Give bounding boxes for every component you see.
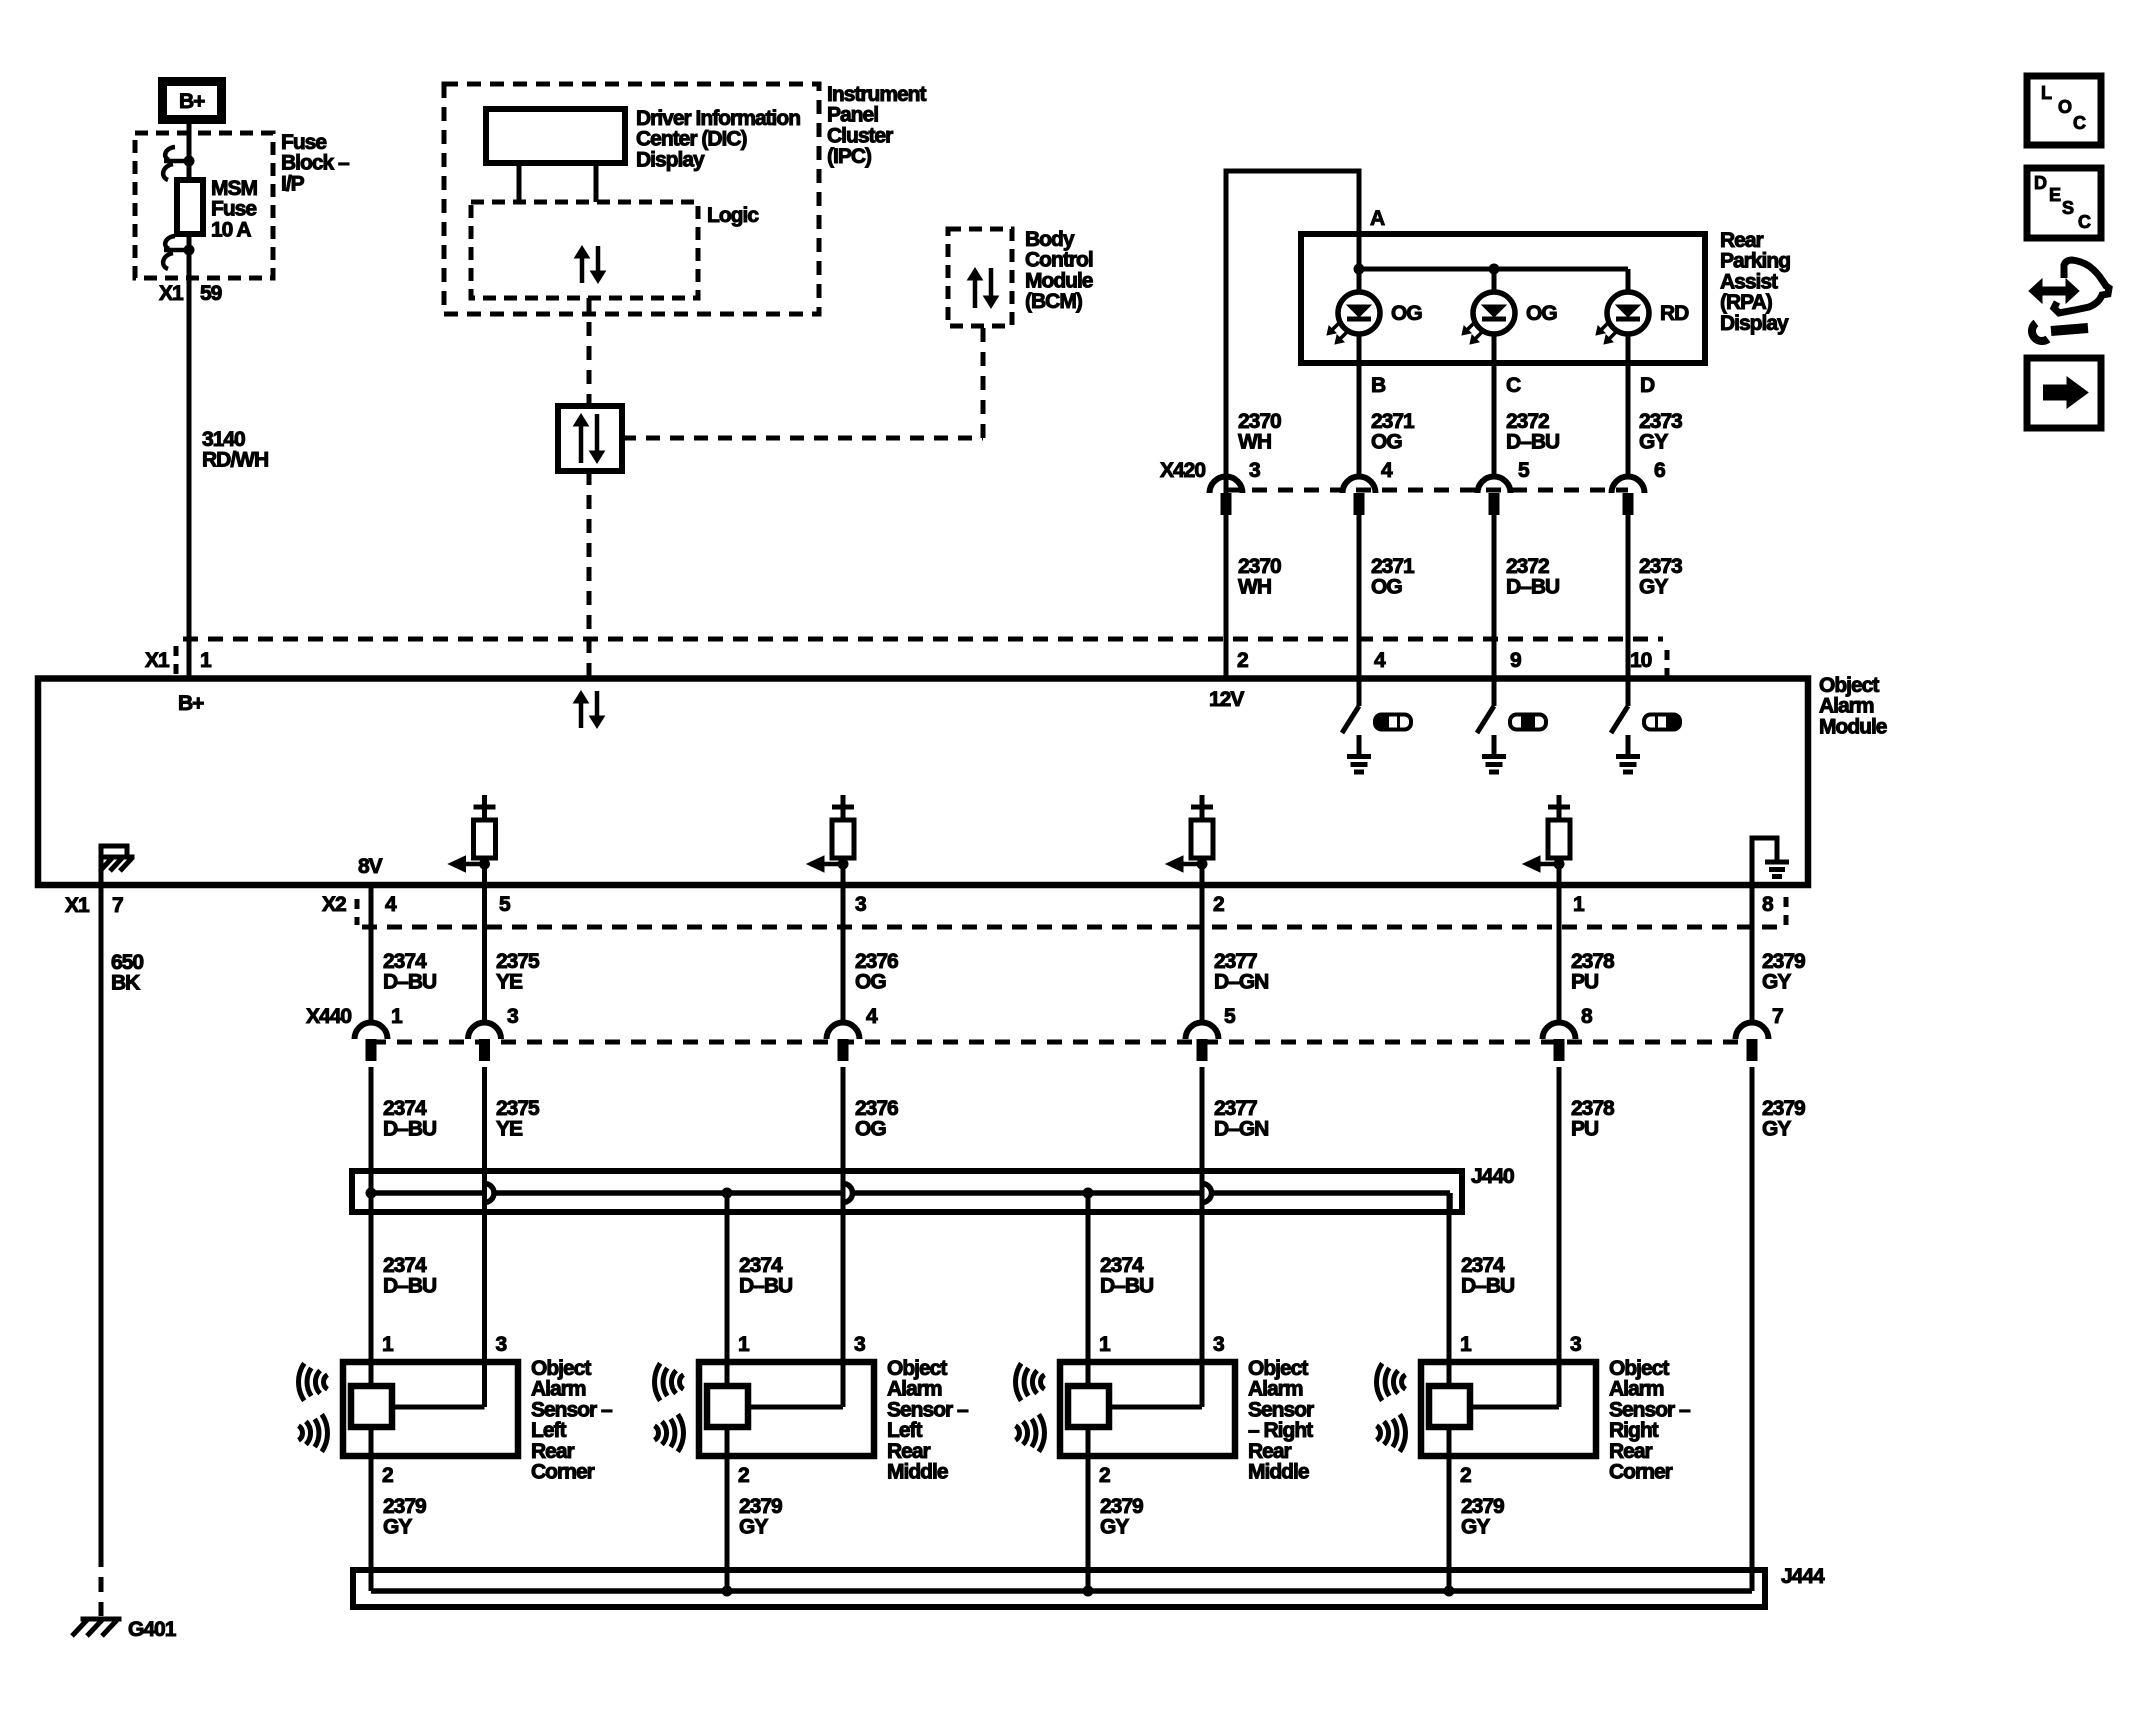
icon DESC box	[2027, 168, 2101, 238]
svg-text:Module: Module	[1819, 715, 1887, 738]
svg-text:GY: GY	[1100, 1516, 1129, 1539]
X440 pin 3 number	[507, 1005, 518, 1028]
svg-text:8: 8	[1762, 893, 1774, 916]
wire 2374 D-BU to J440	[369, 1067, 374, 1193]
sensor 3 label	[1248, 1357, 1314, 1484]
svg-text:650: 650	[111, 951, 143, 974]
svg-text:4: 4	[1381, 459, 1393, 482]
svg-text:2372: 2372	[1506, 410, 1549, 433]
svg-text:J440: J440	[1471, 1165, 1514, 1188]
svg-text:Cluster: Cluster	[827, 124, 893, 147]
wire B+ to fuse	[187, 161, 192, 180]
svg-text:2372: 2372	[1506, 555, 1549, 578]
sensor 2 pin 2 number	[738, 1464, 749, 1487]
X420 pin 6 terminal	[1612, 477, 1645, 516]
wire 2378 PU to sensor 4	[1557, 1067, 1562, 1386]
X420 pin 5 number	[1518, 459, 1530, 482]
svg-text:– Right: – Right	[1248, 1419, 1313, 1442]
J440 junction sensor 2	[722, 1188, 733, 1199]
sensor 2 internal link	[748, 1362, 843, 1407]
connector X2 label	[322, 893, 346, 916]
wire label 2379 GY lower	[1762, 1097, 1805, 1141]
svg-text:3: 3	[855, 893, 866, 916]
wire label 650 BK	[111, 951, 143, 995]
svg-text:2374: 2374	[1100, 1254, 1144, 1277]
svg-text:X1: X1	[65, 894, 90, 917]
svg-text:D: D	[2034, 173, 2047, 193]
sensor 1 pin 1 number	[382, 1333, 394, 1356]
wire label 2374 D-BU sensor 1	[383, 1254, 436, 1298]
splice J440 label	[1471, 1165, 1514, 1188]
wire label 2377 D–GN upper	[1214, 950, 1268, 994]
sensor 3 ultrasonic waves upper	[1015, 1363, 1044, 1400]
sensor 3 pin 2 number	[1099, 1464, 1110, 1487]
X440 pin 7 number	[1772, 1005, 1783, 1028]
svg-text:Module: Module	[1025, 269, 1093, 292]
wire 3140 RD/WH from B+ to fuse block	[187, 124, 192, 161]
svg-text:C: C	[1506, 374, 1521, 397]
wire 2374 D-BU drop to sensor 3	[1086, 1193, 1091, 1386]
module serial data arrows	[574, 691, 605, 728]
module pin B+ label	[178, 692, 204, 715]
svg-text:YE: YE	[496, 1118, 523, 1141]
svg-text:GY: GY	[1762, 971, 1791, 994]
svg-text:Body: Body	[1025, 228, 1075, 251]
indicator icon segment 1	[1375, 715, 1412, 730]
wire 2377 D-GN module to X440	[1200, 884, 1205, 1023]
X1 pin 1 number	[200, 649, 212, 672]
wire label 2372 D-BU upper	[1506, 410, 1559, 454]
pin D label	[1640, 374, 1655, 397]
LED3 cathode lead pin D	[1626, 334, 1631, 477]
svg-text:2370: 2370	[1238, 410, 1281, 433]
wire label 3140 RD/WH	[202, 428, 268, 472]
connector X420 label	[1160, 459, 1205, 482]
svg-text:B+: B+	[179, 90, 205, 113]
svg-text:2371: 2371	[1371, 555, 1415, 578]
svg-text:Right: Right	[1609, 1419, 1659, 1442]
svg-text:GY: GY	[383, 1516, 412, 1539]
wire 2379 GY sensor 3 to J444	[1086, 1427, 1091, 1591]
object alarm sensor 3 box	[1060, 1362, 1235, 1456]
RPA display label	[1720, 229, 1790, 335]
svg-text:MSM: MSM	[211, 177, 258, 200]
module switch LED2 driver	[1477, 678, 1506, 772]
BCM label	[1025, 228, 1093, 313]
LED3 red indicator	[1596, 292, 1649, 344]
svg-text:Alarm: Alarm	[531, 1378, 586, 1401]
svg-text:Left: Left	[887, 1419, 923, 1442]
svg-text:YE: YE	[496, 971, 523, 994]
svg-text:3: 3	[854, 1333, 865, 1356]
wire 650 BK	[99, 884, 104, 1567]
logic serial data arrows	[575, 246, 606, 283]
wire 2379 GY sensor 1 to J444	[369, 1427, 374, 1591]
sensor 1 pin 2 number	[382, 1464, 393, 1487]
svg-text:2376: 2376	[855, 1097, 898, 1120]
svg-text:2373: 2373	[1639, 410, 1682, 433]
wire 2375 YE to sensor 1	[482, 1067, 487, 1386]
X1 pin 10 number	[1630, 649, 1652, 672]
svg-text:D–GN: D–GN	[1214, 971, 1268, 994]
svg-text:D–BU: D–BU	[383, 1275, 436, 1298]
serial data gateway box	[558, 406, 622, 471]
svg-text:Sensor –: Sensor –	[1609, 1398, 1691, 1421]
svg-text:E: E	[2049, 185, 2061, 205]
svg-text:(IPC): (IPC)	[827, 145, 871, 168]
svg-text:D: D	[1640, 374, 1655, 397]
svg-text:2377: 2377	[1214, 1097, 1257, 1120]
svg-text:D–BU: D–BU	[383, 971, 436, 994]
module pin 8V label	[358, 855, 383, 878]
svg-text:5: 5	[499, 893, 511, 916]
svg-text:2379: 2379	[1100, 1495, 1143, 1518]
wire label 2379 GY sensor 3	[1100, 1495, 1143, 1539]
svg-text:3: 3	[1249, 459, 1260, 482]
wire 2370 WH upper segment	[1224, 171, 1229, 477]
ground G401 label	[128, 1618, 177, 1641]
svg-text:OG: OG	[855, 1118, 886, 1141]
svg-text:GY: GY	[1762, 1118, 1791, 1141]
svg-text:C: C	[2078, 212, 2091, 232]
pin C label	[1506, 374, 1521, 397]
RPA anode bus	[1359, 269, 1628, 292]
svg-text:D–BU: D–BU	[1506, 431, 1559, 454]
svg-text:WH: WH	[1238, 431, 1271, 454]
wire 2377 D-GN to sensor 3	[1200, 1067, 1205, 1386]
X2 pin 3 number	[855, 893, 866, 916]
svg-text:2379: 2379	[383, 1495, 426, 1518]
logic dashed box	[471, 202, 698, 298]
svg-text:GY: GY	[739, 1516, 768, 1539]
svg-text:Rear: Rear	[1720, 229, 1764, 252]
wire label 2370 WH upper	[1238, 410, 1281, 454]
LED3 label RD	[1660, 302, 1689, 325]
connector X1 dashed line	[183, 637, 1663, 642]
wire label 2379 GY sensor 2	[739, 1495, 782, 1539]
svg-text:5: 5	[1224, 1005, 1236, 1028]
X420 pin 5 terminal	[1478, 477, 1511, 516]
svg-text:Middle: Middle	[887, 1461, 948, 1484]
svg-text:B+: B+	[178, 692, 204, 715]
svg-text:Instrument: Instrument	[827, 83, 927, 106]
LED2 amber indicator	[1462, 292, 1515, 344]
J440 junction sensor 1	[366, 1188, 377, 1199]
svg-text:Corner: Corner	[531, 1461, 595, 1484]
X420 pin 3 terminal	[1210, 477, 1243, 516]
svg-text:C: C	[2073, 113, 2086, 133]
svg-text:X1: X1	[145, 649, 170, 672]
wire 2379 GY sensor 2 to J444	[725, 1427, 730, 1591]
sensor 2 transducer square	[707, 1386, 748, 1427]
svg-text:Rear: Rear	[887, 1440, 931, 1463]
svg-text:X420: X420	[1160, 459, 1205, 482]
svg-text:Rear: Rear	[1248, 1440, 1292, 1463]
wire label 2375 YE lower	[496, 1097, 540, 1141]
X440 pin 4 number	[866, 1005, 878, 1028]
serial data dashed wire gateway to BCM	[622, 326, 983, 438]
module resistor sensor drive 1	[449, 795, 496, 884]
object alarm sensor 1 box	[343, 1362, 518, 1456]
wire label 2374 D–BU lower	[383, 1097, 436, 1141]
sensor 2 pin 3 number	[854, 1333, 865, 1356]
X1 label left	[145, 649, 170, 672]
svg-text:3: 3	[496, 1333, 507, 1356]
sensor 4 pin 3 number	[1570, 1333, 1581, 1356]
svg-text:S: S	[2062, 198, 2074, 218]
J444 junction sensor 3	[1083, 1586, 1094, 1597]
svg-text:Fuse: Fuse	[281, 131, 326, 154]
wire DIC leg right	[594, 163, 599, 202]
sensor 1 transducer square	[351, 1386, 392, 1427]
svg-text:2376: 2376	[855, 950, 898, 973]
X420 pin 4 terminal	[1343, 477, 1376, 516]
X1 pin 2 number	[1237, 649, 1248, 672]
svg-text:OG: OG	[1371, 576, 1402, 599]
svg-text:Display: Display	[636, 148, 705, 171]
svg-text:Rear: Rear	[1609, 1440, 1653, 1463]
svg-text:1: 1	[391, 1005, 403, 1028]
wire 3140 RD/WH to module	[187, 250, 192, 678]
module resistor sensor drive 2	[807, 795, 854, 884]
svg-text:X440: X440	[306, 1005, 351, 1028]
svg-text:2370: 2370	[1238, 555, 1281, 578]
svg-text:4: 4	[866, 1005, 878, 1028]
svg-text:Alarm: Alarm	[887, 1378, 942, 1401]
sensor 1 label	[531, 1357, 613, 1484]
svg-text:(RPA): (RPA)	[1720, 291, 1772, 314]
BCM serial data arrows	[968, 268, 999, 308]
svg-text:2378: 2378	[1571, 950, 1615, 973]
wire label 2370 WH lower	[1238, 555, 1281, 599]
svg-text:B: B	[1371, 374, 1386, 397]
svg-text:WH: WH	[1238, 576, 1271, 599]
svg-text:3: 3	[507, 1005, 518, 1028]
svg-text:10 A: 10 A	[211, 218, 251, 241]
svg-text:2374: 2374	[383, 950, 427, 973]
X2 right tick	[1784, 897, 1789, 925]
svg-text:Alarm: Alarm	[1609, 1378, 1664, 1401]
sensor 4 label	[1609, 1357, 1691, 1484]
wire 2374 D-BU module to X440	[369, 884, 374, 1023]
svg-text:2374: 2374	[739, 1254, 783, 1277]
gateway serial data arrows	[574, 414, 605, 463]
svg-text:Sensor: Sensor	[1248, 1398, 1314, 1421]
svg-text:L: L	[2041, 83, 2052, 103]
wire label 2371 OG lower	[1371, 555, 1415, 599]
svg-text:J444: J444	[1781, 1565, 1825, 1588]
svg-text:Assist: Assist	[1720, 270, 1778, 293]
sensor 2 ultrasonic waves upper	[654, 1363, 683, 1400]
wire 2375 YE module to X440	[482, 884, 487, 1023]
svg-text:Alarm: Alarm	[1248, 1378, 1303, 1401]
wire label 2379 GY upper	[1762, 950, 1805, 994]
wire fuse to clip	[187, 234, 192, 250]
sensor 4 pin 2 number	[1460, 1464, 1471, 1487]
object alarm sensor 2 box	[699, 1362, 874, 1456]
X420 pin 3 number	[1249, 459, 1260, 482]
svg-text:2375: 2375	[496, 1097, 540, 1120]
X2 pin 8 number	[1762, 893, 1774, 916]
svg-text:59: 59	[200, 282, 222, 305]
svg-text:2379: 2379	[1762, 1097, 1805, 1120]
svg-text:Block –: Block –	[281, 152, 350, 175]
wire 2376 OG module to X440	[841, 884, 846, 1023]
svg-text:GY: GY	[1639, 576, 1668, 599]
svg-text:Left: Left	[531, 1419, 567, 1442]
svg-text:1: 1	[1460, 1333, 1472, 1356]
instrument panel cluster IPC dashed box	[444, 84, 819, 314]
svg-text:2374: 2374	[383, 1097, 427, 1120]
wire label 2377 D–GN lower	[1214, 1097, 1268, 1141]
LED1 label OG	[1391, 302, 1422, 325]
svg-text:9: 9	[1510, 649, 1521, 672]
sensor 3 pin 1 number	[1099, 1333, 1111, 1356]
svg-text:2: 2	[738, 1464, 749, 1487]
svg-text:1: 1	[738, 1333, 750, 1356]
wire 2379 GY module to X440	[1750, 884, 1755, 1023]
wire label 2374 D–BU upper	[383, 950, 436, 994]
svg-text:2371: 2371	[1371, 410, 1415, 433]
svg-text:Object: Object	[1609, 1357, 1669, 1380]
wire 2372 D-BU to module	[1492, 514, 1497, 678]
X1 right tick	[1665, 650, 1670, 678]
LED2 cathode lead pin C	[1492, 334, 1497, 477]
wire label 2371 OG upper	[1371, 410, 1415, 454]
LED2 lead	[1492, 269, 1497, 292]
svg-text:2: 2	[1099, 1464, 1110, 1487]
svg-text:1: 1	[200, 649, 212, 672]
IPC label	[827, 83, 927, 168]
sensor 3 ultrasonic waves lower	[1016, 1414, 1045, 1451]
svg-text:8V: 8V	[358, 855, 383, 878]
LED1 lead	[1357, 269, 1362, 292]
connector X1 pin 59 label	[159, 282, 222, 305]
svg-text:X1: X1	[159, 282, 184, 305]
svg-text:2379: 2379	[1461, 1495, 1504, 1518]
sensor 4 pin 1 number	[1460, 1333, 1472, 1356]
svg-text:7: 7	[1772, 1005, 1783, 1028]
X2 tick	[355, 899, 360, 925]
J440 bus 2374 D-BU	[371, 1193, 1450, 1212]
wire 2376 OG to sensor 2	[841, 1067, 846, 1386]
svg-text:Control: Control	[1025, 249, 1093, 272]
X440 terminal 2376 OG	[827, 1023, 860, 1061]
X1 left tick	[174, 646, 179, 674]
svg-text:7: 7	[112, 894, 123, 917]
icon forward arrow box	[2027, 358, 2101, 428]
svg-text:Middle: Middle	[1248, 1461, 1309, 1484]
X2 pin 2 number	[1213, 893, 1224, 916]
svg-text:1: 1	[382, 1333, 394, 1356]
wire label 2373 GY upper	[1639, 410, 1682, 454]
wire 2374 D-BU drop to sensor 2	[725, 1193, 730, 1386]
sensor 3 transducer square	[1068, 1386, 1109, 1427]
fuse MSM 10 A	[177, 180, 203, 234]
X2 pin 5 number	[499, 893, 511, 916]
svg-text:2375: 2375	[496, 950, 540, 973]
fuse MSM label	[211, 177, 258, 241]
wire label 2375 YE upper	[496, 950, 540, 994]
module resistor sensor drive 4	[1523, 795, 1570, 884]
LED1 cathode lead pin B	[1357, 334, 1362, 477]
fuse block label	[281, 131, 350, 195]
sensor 1 ultrasonic waves upper	[298, 1363, 327, 1400]
svg-text:OG: OG	[1391, 302, 1422, 325]
X1 pin 4 number	[1374, 649, 1386, 672]
sensor 4 internal link	[1470, 1362, 1559, 1407]
J444 bus 2379 GY	[371, 1588, 1752, 1594]
svg-text:8: 8	[1581, 1005, 1593, 1028]
icon wiring repair	[2029, 260, 2109, 341]
X440 terminal 2375 YE	[468, 1023, 501, 1061]
junction node LED2	[1489, 264, 1500, 275]
svg-text:RD: RD	[1660, 302, 1689, 325]
sensor 3 pin 3 number	[1213, 1333, 1224, 1356]
module internal ground earth right	[1752, 838, 1789, 884]
sensor 4 ultrasonic waves lower	[1377, 1414, 1406, 1451]
X420 dashed line	[1226, 488, 1628, 493]
splice J444 label	[1781, 1565, 1825, 1588]
X440 dashed line	[371, 1040, 1752, 1045]
svg-text:4: 4	[385, 893, 397, 916]
splice pack J440 box	[352, 1171, 1462, 1212]
wire label 2372 D-BU lower	[1506, 555, 1559, 599]
wire label 2374 D-BU sensor 4	[1461, 1254, 1514, 1298]
fuse block I/P dashed box	[135, 133, 273, 278]
wire label 2379 GY sensor 1	[383, 1495, 426, 1539]
module resistor sensor drive 3	[1166, 795, 1213, 884]
wire 2371 OG to module	[1357, 514, 1362, 678]
object alarm sensor 4 box	[1421, 1362, 1596, 1456]
clip terminal top	[163, 147, 194, 180]
svg-text:1: 1	[1573, 893, 1585, 916]
serial data dashed wire gateway to module	[587, 471, 592, 678]
wire 2373 GY to module	[1626, 514, 1631, 678]
svg-text:BK: BK	[111, 972, 140, 995]
wire 650 BK dashed tail	[99, 1577, 104, 1616]
svg-text:Corner: Corner	[1609, 1461, 1673, 1484]
svg-text:OG: OG	[1526, 302, 1557, 325]
svg-text:4: 4	[1374, 649, 1386, 672]
svg-text:Fuse: Fuse	[211, 198, 256, 221]
svg-text:2: 2	[1460, 1464, 1471, 1487]
svg-text:Object: Object	[1248, 1357, 1308, 1380]
X440 terminal 2377 D-GN	[1186, 1023, 1219, 1061]
X440 terminal 2378 PU	[1543, 1023, 1576, 1061]
X420 pin 4 number	[1381, 459, 1393, 482]
X1 pin 9 number	[1510, 649, 1521, 672]
LED1 amber indicator	[1327, 292, 1380, 344]
X2 pin 1 number	[1573, 893, 1585, 916]
indicator icon segment 2	[1510, 715, 1546, 730]
svg-text:2374: 2374	[383, 1254, 427, 1277]
svg-text:Center (DIC): Center (DIC)	[636, 128, 747, 151]
wire label 2378 PU upper	[1571, 950, 1615, 994]
svg-text:2373: 2373	[1639, 555, 1682, 578]
clip terminal bottom	[163, 236, 194, 269]
node A label	[1370, 207, 1385, 230]
svg-text:Object: Object	[887, 1357, 947, 1380]
svg-text:Object: Object	[531, 1357, 591, 1380]
svg-text:D–GN: D–GN	[1214, 1118, 1268, 1141]
driver information center DIC display box	[486, 109, 625, 163]
logic label	[707, 204, 759, 227]
J444 junction sensor 2	[722, 1586, 733, 1597]
svg-text:PU: PU	[1571, 1118, 1598, 1141]
svg-text:Sensor –: Sensor –	[531, 1398, 613, 1421]
wire 2379 GY to J444	[1750, 1067, 1755, 1591]
